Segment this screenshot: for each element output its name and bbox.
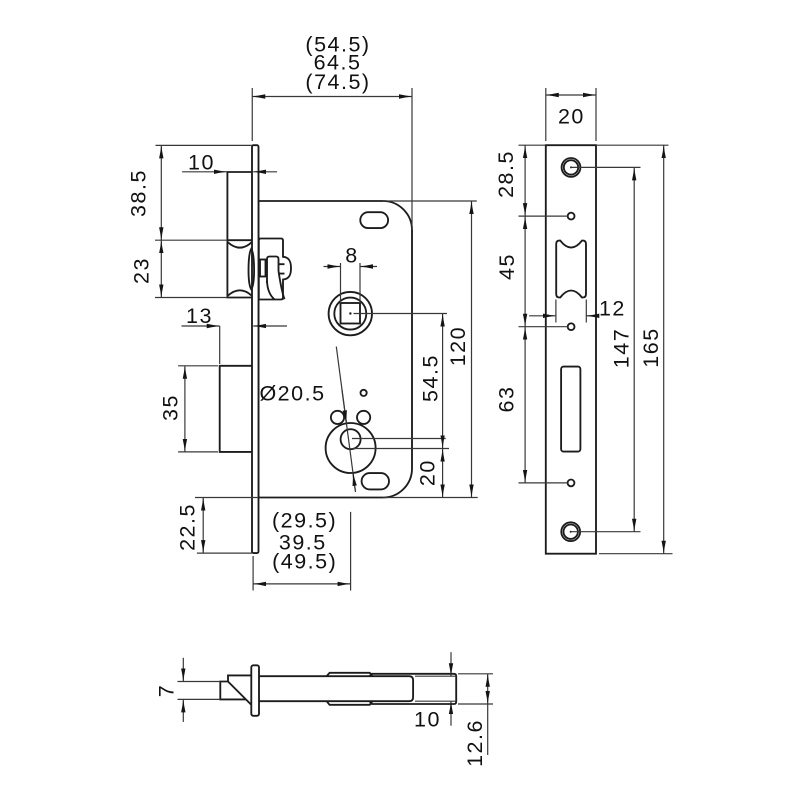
svg-text:38.5: 38.5	[127, 169, 151, 217]
follower shaft lines	[279, 264, 285, 273]
svg-text:(74.5): (74.5)	[305, 70, 370, 94]
svg-text:63: 63	[494, 386, 518, 413]
top dim extension left	[251, 88, 253, 141]
svg-text:120: 120	[446, 326, 470, 366]
dim line 54.5	[442, 314, 444, 449]
ext deadbolt bottom	[178, 451, 218, 453]
latch bolt top edge	[227, 239, 252, 241]
ext 39.5 right	[350, 512, 352, 591]
top dim extension right	[411, 88, 413, 230]
dim 10 right arrow	[253, 171, 277, 173]
strike faceplate (front view)	[546, 145, 596, 554]
ext latch top	[155, 239, 227, 241]
cam lower curve right	[279, 271, 285, 299]
ext 39.5 left (faceplate)	[252, 556, 254, 591]
dim line 20 main	[442, 449, 444, 498]
ext 7 bottom	[178, 698, 221, 700]
ext 8 left	[340, 263, 342, 303]
top oval slot	[360, 212, 388, 228]
svg-text:10: 10	[414, 708, 441, 732]
deadbolt (side view)	[220, 366, 252, 452]
knob center line	[352, 438, 446, 440]
dim line 120	[471, 201, 473, 498]
bottom oval slot	[362, 473, 389, 489]
dim line 45	[524, 216, 526, 327]
ext 20 top left	[545, 88, 547, 141]
follower cam bar	[267, 257, 279, 284]
dim line 38.5	[160, 145, 162, 240]
ext 8 right	[359, 263, 361, 303]
spindle square hole 8mm	[341, 303, 361, 324]
dim line 64.5	[252, 96, 412, 98]
dim 12 right arrow	[586, 315, 598, 317]
latch bevel edge	[228, 682, 252, 706]
small hole left	[331, 411, 344, 424]
ext 12 right	[585, 300, 587, 323]
svg-text:45: 45	[495, 253, 519, 280]
ext 12.6 top	[458, 673, 493, 675]
latch bolt head (top view)	[220, 675, 251, 699]
faceplate (section)	[251, 665, 259, 716]
dim 7 top arrow	[182, 658, 184, 682]
ext 12.6 bottom	[458, 703, 493, 705]
spindle hole inner circle	[334, 298, 366, 330]
ext plate top left	[519, 144, 546, 146]
small hole 63	[568, 480, 575, 487]
dim line 39.5	[253, 583, 351, 585]
cylinder center line	[353, 448, 449, 450]
dim line 28.5	[524, 145, 526, 216]
faceplate (edge view)	[252, 145, 259, 553]
dim line 22.5	[202, 498, 204, 554]
bottom screw hole outer	[561, 522, 580, 541]
spindle center dot	[349, 312, 351, 314]
ext deadbolt top	[178, 365, 218, 367]
svg-text:Ø20.5: Ø20.5	[259, 382, 325, 406]
cam lower curve left	[267, 281, 275, 299]
dim 7 bottom arrow	[182, 699, 184, 722]
follower hub housing box	[259, 239, 291, 300]
ext 20 top right	[595, 88, 597, 141]
latch shaft bar	[259, 676, 413, 701]
dim line 63	[524, 327, 526, 483]
ext body bottom left	[195, 497, 259, 499]
deadbolt cutout	[561, 367, 580, 452]
small hole 45	[568, 323, 575, 330]
svg-text:8: 8	[345, 244, 358, 268]
latch bolt housing box	[227, 172, 252, 298]
svg-text:28.5: 28.5	[494, 150, 518, 198]
ext 10b top	[415, 675, 457, 677]
dim line 12.6	[487, 674, 489, 704]
dim 13 left arrow	[182, 325, 220, 327]
dim line 165	[663, 145, 665, 554]
svg-text:12: 12	[599, 297, 626, 321]
lock body (side view)	[259, 201, 413, 498]
ext plate top right	[596, 144, 669, 146]
small hole 28.5	[568, 213, 575, 220]
dim 12.6 tail	[487, 704, 489, 755]
latch bolt nose lens	[249, 249, 255, 290]
top screw center dot	[570, 166, 572, 168]
top screw hole inner	[564, 160, 578, 174]
dim 10 left arrow	[182, 171, 227, 173]
latch bolt bottom arc	[228, 290, 252, 295]
ext latch bottom	[155, 297, 227, 299]
svg-text:20: 20	[416, 459, 440, 486]
ext body top right	[383, 200, 477, 202]
svg-text:23: 23	[130, 257, 154, 284]
svg-text:7: 7	[154, 684, 178, 697]
bottom screw center dot	[570, 531, 572, 533]
ext 12 left	[555, 300, 557, 323]
svg-text:13: 13	[186, 304, 213, 328]
top screw hole outer	[562, 158, 581, 177]
dim 13 right arrow	[253, 325, 287, 327]
ext 7 top	[178, 681, 221, 683]
spindle hole outer circle	[329, 292, 372, 335]
ext faceplate bottom	[197, 552, 252, 554]
dim 10b bottom arrow	[450, 701, 452, 726]
follower tab	[260, 260, 266, 277]
svg-text:(29.5): (29.5)	[272, 509, 337, 533]
svg-text:10: 10	[188, 151, 215, 175]
screw leader bottom	[571, 531, 641, 533]
cylinder hole big circle	[326, 423, 376, 473]
tiny hole	[361, 390, 367, 396]
leader arrow bottom	[353, 473, 355, 491]
small hole right	[357, 411, 370, 424]
ext body bottom right	[383, 497, 478, 499]
dim 10b top arrow	[450, 652, 452, 676]
dim line 20 top	[546, 94, 596, 96]
svg-text:(49.5): (49.5)	[272, 550, 337, 574]
latch bolt top arc	[228, 242, 252, 247]
leader line dia20.5	[336, 347, 355, 492]
svg-text:54.5: 54.5	[418, 354, 442, 402]
hole leader 63	[519, 482, 568, 484]
dim line 23	[160, 240, 162, 297]
dim 8 left arrow	[324, 266, 341, 268]
svg-text:35: 35	[159, 394, 183, 421]
svg-text:22.5: 22.5	[175, 503, 199, 551]
bottom screw hole inner	[564, 525, 578, 539]
svg-text:165: 165	[639, 327, 663, 367]
dim line 147	[633, 167, 635, 531]
knob hub circle	[341, 429, 361, 449]
screw leader top	[571, 166, 641, 168]
latch housing end piece	[370, 674, 457, 704]
leader arrow top	[342, 389, 347, 423]
hole leader 45	[519, 326, 568, 328]
dim 8 right arrow	[360, 266, 377, 268]
latch guide piece	[327, 673, 373, 705]
svg-text:12.6: 12.6	[463, 719, 487, 767]
svg-text:20: 20	[558, 104, 585, 128]
svg-text:147: 147	[609, 328, 633, 368]
hole leader 28.5	[519, 215, 568, 217]
dim 12 left arrow	[529, 315, 556, 317]
ext faceplate top left	[156, 144, 253, 146]
dim line 35	[184, 366, 186, 452]
ext deadbolt left upper	[219, 326, 221, 364]
ext 10b bottom	[415, 700, 457, 702]
spindle center line	[354, 313, 448, 315]
ext plate bottom right	[599, 553, 673, 555]
latch cutout	[556, 241, 586, 298]
